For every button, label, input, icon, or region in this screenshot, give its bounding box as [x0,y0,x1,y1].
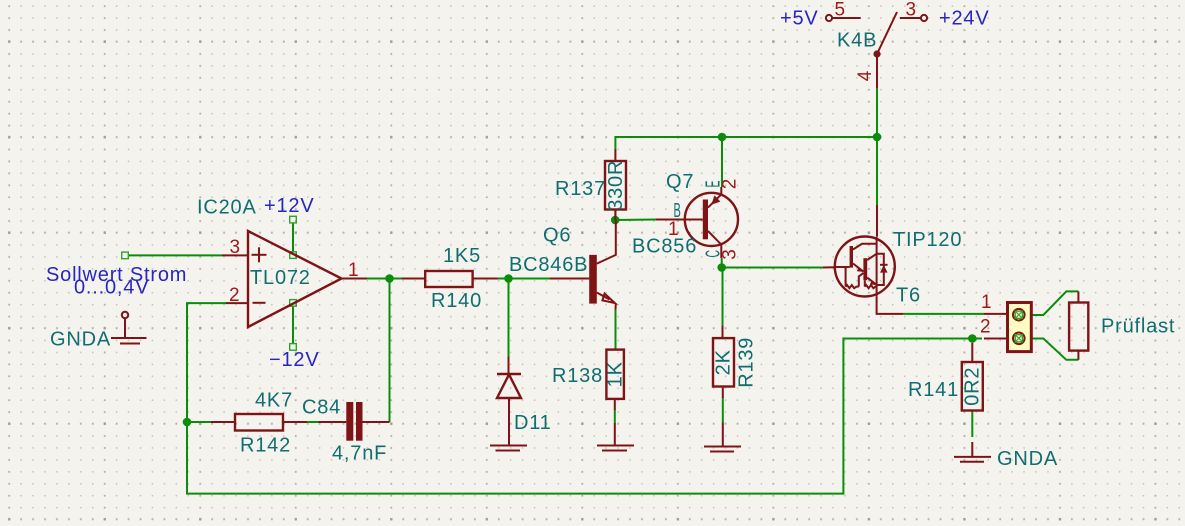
svg-text:R138: R138 [552,365,603,387]
ground under R138 [597,446,634,451]
svg-text:R141: R141 [908,379,959,401]
pin number 4 (K4B common) [855,70,876,81]
wire input to op-amp pin 3 [129,254,223,256]
resistor R141 0R2 [908,343,984,457]
junction feedback left node [183,418,192,427]
svg-text:IC20A: IC20A [197,197,257,219]
resistor R140 1K5 [402,245,498,312]
svg-text:Q7: Q7 [666,171,694,193]
pin number 1 (Q7 base) [668,219,679,240]
svg-text:Q6: Q6 [543,225,571,247]
junction terminal pin 2 / R141 node [968,334,977,343]
wire feedback node to R142 [187,421,211,423]
svg-text:T6: T6 [896,285,921,307]
svg-text:2K: 2K [712,349,734,375]
svg-text:GNDA: GNDA [997,448,1058,470]
wire R137 bottom to Q7 base [615,210,656,221]
resistor R139 2K [712,325,757,446]
pin number 5 (K4B) [835,0,846,21]
power GNDA right symbol [954,448,1058,470]
wire R138 to ground [614,410,616,424]
svg-text:2: 2 [980,317,991,338]
svg-text:R140: R140 [431,290,482,312]
pin number 2 (op-amp inverting) [229,285,240,306]
pin number 3 (op-amp non-inverting) [230,237,241,258]
svg-text:330R: 330R [605,160,627,211]
svg-text:1: 1 [668,219,679,240]
load resistor Pruflast [1069,291,1175,359]
pin number 2 (Q7 emitter) [720,178,741,189]
resistor R138 1K [552,350,626,446]
svg-text:R139: R139 [736,337,758,388]
relay contact K4B [826,12,927,88]
power GNDA left symbol [50,312,147,351]
svg-text:TL072: TL072 [250,267,311,289]
svg-text:5: 5 [835,0,846,21]
svg-text:1: 1 [348,260,359,281]
svg-text:K4B: K4B [837,30,877,52]
svg-text:2: 2 [229,285,240,306]
transistor T6 TIP120 [823,205,962,314]
junction Q7 collector node [717,263,726,272]
wire R139 to ground [722,397,724,423]
svg-text:TIP120: TIP120 [893,229,962,251]
power +12V [264,195,314,217]
svg-text:BC856: BC856 [632,236,697,258]
wire TIP120 emitter to terminal pin 1 [903,313,984,315]
svg-text:2: 2 [720,178,741,189]
svg-text:0R2: 0R2 [962,367,984,406]
svg-text:BC846B: BC846B [509,254,588,276]
wire Q6 emitter to R138 [615,310,617,350]
wire Q7 collector node down to R139 [722,268,724,326]
wire R142 to C84 [307,421,319,423]
wire op-amp output to R140 [367,278,402,280]
svg-text:+12V: +12V [264,195,314,217]
svg-text:R142: R142 [240,435,291,457]
svg-text:+24V: +24V [939,8,989,30]
power +24V [939,8,989,30]
wire collector rail node down to TIP120 collector [876,137,878,205]
junction R137 bottom / Q6 collector node [611,216,620,225]
diode D11 [497,357,552,446]
ground under D11 [490,446,527,451]
svg-text:4,7nF: 4,7nF [332,443,387,465]
pin number 3 (Q7 collector) [720,248,741,259]
svg-text:3: 3 [230,237,241,258]
power +5V [780,8,819,30]
wire R141 to ground GNDA [971,411,973,437]
junction op-amp output node [385,274,394,283]
svg-text:D11: D11 [514,412,552,434]
wire Q6 base node down to D11 [508,279,510,357]
junction top rail / Q7 emitter [718,133,727,142]
node dangling input end [122,252,129,259]
wire R137 top rail [615,137,877,149]
wire top rail down to Q7 emitter [721,137,723,187]
svg-text:1: 1 [981,292,992,313]
svg-text:3: 3 [720,248,741,259]
wire terminal screw 1 to load resistor top [1024,291,1079,315]
pin number 3 (K4B) [906,0,917,21]
svg-text:C84: C84 [302,397,341,419]
svg-text:+5V: +5V [780,8,819,30]
wire op-amp pin 2 feedback loop to terminal pin 2 node [187,303,982,494]
node V+ wire ends [290,216,297,258]
svg-text:4: 4 [855,70,876,81]
resistor R137 330R [555,149,627,220]
wire R140 to Q6 base node [498,278,551,280]
pin number 2 (terminal) [980,317,991,338]
svg-text:GNDA: GNDA [50,329,111,351]
svg-text:4K7: 4K7 [255,390,293,412]
resistor R142 4K7 [211,390,307,457]
wire V- power to op-amp [292,306,294,344]
power -12V [269,349,319,371]
op-amp IC20A TL072 [197,197,367,328]
junction top rail / K4B feed [873,133,882,142]
svg-text:1K5: 1K5 [443,245,481,267]
transistor Q6 BC846B [509,220,616,310]
ground under R139 [704,447,741,452]
svg-text:Prüflast: Prüflast [1101,316,1175,338]
svg-text:−12V: −12V [269,349,319,371]
capacitor C84 4,7nF [302,397,390,465]
svg-text:R137: R137 [555,178,606,200]
wire K4B pin 4 down to collector rail node [876,88,878,137]
wire terminal screw 2 to load resistor bottom [1024,339,1079,360]
label Sollwert Strom 0...0,4V [46,264,187,299]
transistor Q7 BC856 [632,171,738,258]
pin number 1 (terminal) [981,292,992,313]
wire Q7 collector node to TIP120 base [722,258,823,268]
svg-text:0...0,4V: 0...0,4V [74,277,149,299]
pin number 1 (op-amp output) [348,260,359,281]
svg-text:1K: 1K [604,361,626,387]
wire output node down to C84 [389,279,391,423]
node V- wire ends [290,300,297,351]
wire V+ power to op-amp [292,223,294,253]
svg-text:3: 3 [906,0,917,21]
junction Q6 base node [504,274,513,283]
connector screw terminal (Pruflast) [984,303,1031,352]
